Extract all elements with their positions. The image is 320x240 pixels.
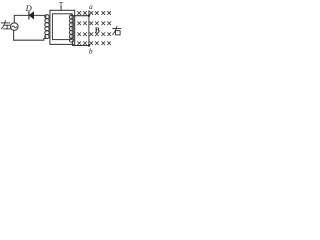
secondary coil [69, 15, 73, 42]
wire: diode to transformer primary [34, 15, 46, 18]
wire: secondary bottom to node b [73, 41, 89, 46]
svg-text:a: a [89, 3, 93, 11]
conductor ab [88, 11, 90, 46]
wire: AC source top to diode [14, 15, 28, 22]
transformer T core (outer) [50, 10, 75, 44]
transformer T core (inner) [52, 14, 72, 40]
T label tick [60, 7, 62, 11]
svg-text:D: D [25, 3, 33, 13]
svg-text:b: b [89, 47, 93, 56]
field x marks [78, 11, 111, 44]
AC source G [11, 23, 19, 31]
node b [88, 44, 90, 46]
label 右 (right), drawn as strokes [113, 26, 121, 35]
primary coil [45, 15, 49, 39]
diode D [29, 12, 34, 19]
wire: primary coil bottom to AC source [14, 30, 46, 40]
label 左 (left), drawn as strokes [1, 21, 10, 29]
node a [88, 15, 90, 17]
wire: secondary top to node a [72, 15, 89, 17]
